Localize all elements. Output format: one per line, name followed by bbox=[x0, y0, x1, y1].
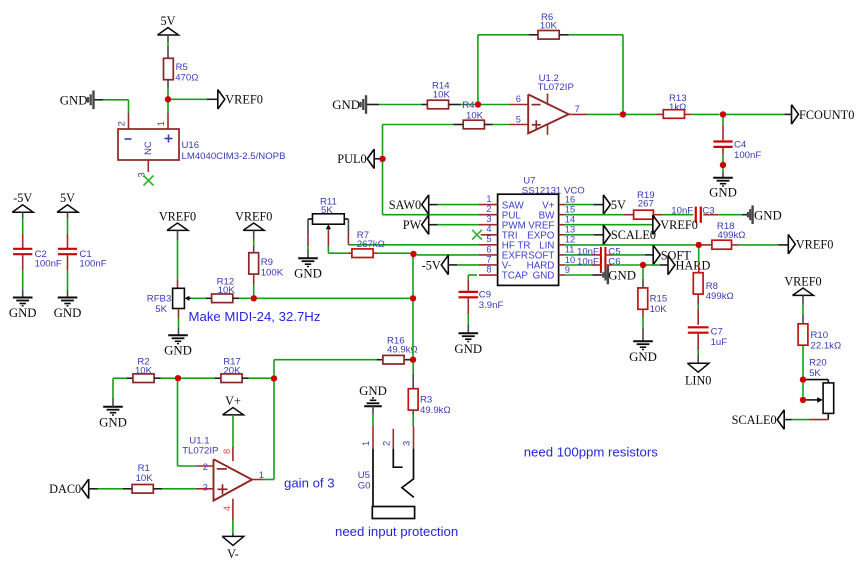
wire junction to VREF0 label bbox=[171, 98, 207, 100]
pin 5 of U1.2 bbox=[510, 124, 529, 126]
U1.1 minus mark bbox=[217, 468, 227, 470]
global label VREF0 (pin 14) bbox=[653, 215, 660, 235]
wire node G to C4 bbox=[722, 118, 724, 125]
pin 3 of U16 bbox=[147, 160, 149, 172]
wire feedback up bbox=[477, 35, 479, 102]
svg-text:GND: GND bbox=[60, 93, 88, 107]
svg-text:1: 1 bbox=[486, 194, 491, 204]
pin 16 of U7 bbox=[559, 204, 565, 206]
svg-text:GND: GND bbox=[709, 186, 737, 200]
wire R6 to output bbox=[560, 34, 569, 36]
wire pin 14 to VREF0 bbox=[565, 224, 653, 226]
wire V+ to U1.1 bbox=[232, 415, 234, 447]
wire node E up to R4 bbox=[382, 125, 384, 156]
wire node K to node L bbox=[802, 383, 804, 397]
resistor R10 bbox=[798, 324, 808, 345]
wire R18 to VREF0 bbox=[732, 244, 739, 246]
svg-text:10K: 10K bbox=[540, 20, 558, 31]
svg-text:GND: GND bbox=[754, 208, 782, 222]
junction R9/R12 bbox=[251, 295, 257, 301]
wire R12 to node bbox=[233, 297, 239, 299]
svg-text:Make MIDI-24, 32.7Hz: Make MIDI-24, 32.7Hz bbox=[189, 309, 321, 324]
GND power flag (C3) bbox=[747, 212, 749, 217]
global label -5V bbox=[441, 255, 448, 275]
junction above GND bbox=[720, 162, 726, 168]
pin 11 of U7 bbox=[559, 254, 565, 256]
ground below C2 bbox=[13, 297, 33, 299]
wire C3 to GND flag bbox=[703, 214, 718, 216]
svg-text:1uF: 1uF bbox=[711, 337, 728, 348]
svg-text:LIN: LIN bbox=[539, 241, 554, 252]
svg-text:GND: GND bbox=[533, 271, 555, 282]
svg-text:10K: 10K bbox=[433, 90, 451, 101]
svg-text:2: 2 bbox=[486, 204, 491, 214]
capacitor C1 bbox=[58, 248, 77, 250]
svg-text:100nF: 100nF bbox=[35, 259, 62, 270]
wire R5 to node bbox=[167, 80, 169, 88]
svg-text:GND: GND bbox=[359, 384, 387, 398]
svg-text:V+: V+ bbox=[225, 394, 241, 408]
GND power flag bbox=[92, 91, 94, 110]
pin 6 of U1.2 bbox=[510, 104, 529, 106]
wire DAC0 to R1 bbox=[89, 488, 98, 490]
svg-text:BW: BW bbox=[539, 210, 556, 221]
U1.2 power stubs bbox=[547, 94, 549, 106]
pin 13 of U7 bbox=[559, 234, 565, 236]
wire node J to R15 bbox=[642, 268, 644, 279]
wire junction to U16 pin 1 bbox=[167, 103, 169, 114]
ground below R15 bbox=[633, 340, 653, 342]
svg-text:GND: GND bbox=[629, 350, 657, 364]
wire C9 to GND bbox=[467, 297, 469, 314]
wire node C to R3 bbox=[412, 363, 414, 374]
svg-text:9: 9 bbox=[565, 265, 570, 275]
wire R4 to pin 5 bbox=[484, 124, 492, 126]
ground left of R2 bbox=[103, 406, 123, 408]
jack U5 body bbox=[373, 449, 414, 507]
node L junction (wiper) bbox=[800, 397, 806, 403]
pin 9 of U7 bbox=[559, 274, 565, 276]
pin 4 of U1.1 bbox=[232, 499, 234, 521]
svg-text:267: 267 bbox=[638, 199, 654, 210]
pin 8 of U7 bbox=[479, 274, 498, 276]
svg-text:7: 7 bbox=[486, 254, 491, 264]
svg-text:10K: 10K bbox=[650, 304, 668, 315]
pin 1 of U16 bbox=[167, 113, 169, 129]
svg-text:100nF: 100nF bbox=[79, 259, 106, 270]
global label SCALE0 (bottom) bbox=[777, 410, 784, 430]
svg-text:5K: 5K bbox=[155, 304, 167, 315]
potentiometer R20 bbox=[823, 383, 834, 414]
svg-text:U16: U16 bbox=[182, 140, 200, 151]
svg-text:GND: GND bbox=[608, 269, 636, 283]
wire C1 to GND bbox=[67, 254, 69, 270]
op-amp U1.1 bbox=[214, 459, 253, 500]
capacitor C6 bbox=[600, 257, 602, 273]
wire GND to R14 bbox=[367, 104, 379, 106]
wire R20 bottom to SCALE0 bbox=[827, 413, 829, 419]
resistor R2 bbox=[133, 374, 154, 383]
pin 10 of U7 bbox=[559, 264, 565, 266]
pin 5 of U7 bbox=[479, 244, 498, 246]
wire C4 to GND node bbox=[722, 147, 724, 155]
svg-text:499kΩ: 499kΩ bbox=[706, 291, 734, 302]
op-amp U1.2 bbox=[528, 94, 568, 133]
svg-text:R15: R15 bbox=[650, 293, 668, 304]
wire C6 to node J bbox=[605, 264, 612, 266]
svg-text:HARD: HARD bbox=[527, 261, 555, 272]
wire R10 to node K bbox=[802, 346, 804, 354]
wire R11 right terminal bbox=[344, 218, 348, 220]
voltage reference U16 body bbox=[118, 129, 179, 160]
svg-text:10K: 10K bbox=[135, 365, 153, 376]
svg-text:1: 1 bbox=[361, 441, 371, 446]
resistor R14 bbox=[427, 100, 448, 109]
svg-text:1kΩ: 1kΩ bbox=[669, 102, 686, 113]
wire VREF0 to R9 bbox=[253, 230, 255, 239]
node A junction bbox=[175, 375, 181, 381]
wire VREF0 to R10 bbox=[802, 295, 804, 304]
wire junction to VCO node bbox=[257, 297, 410, 299]
svg-text:GND: GND bbox=[332, 98, 360, 112]
svg-text:G0: G0 bbox=[358, 481, 371, 492]
wire pin 11 to C5 bbox=[565, 254, 593, 256]
svg-text:15: 15 bbox=[565, 204, 575, 214]
svg-text:VREF0: VREF0 bbox=[225, 93, 263, 107]
global label VREF0 (right) bbox=[788, 234, 795, 254]
svg-text:6: 6 bbox=[486, 244, 491, 254]
svg-text:2: 2 bbox=[203, 462, 208, 472]
wire R4 left bbox=[383, 124, 454, 126]
pin 2 of U7 bbox=[479, 214, 498, 216]
node E junction bbox=[379, 156, 385, 162]
wire pin 9 to GND flag bbox=[565, 274, 593, 276]
wire node H to pin 6 bbox=[417, 254, 480, 256]
svg-text:EXPO: EXPO bbox=[527, 230, 555, 241]
svg-text:7: 7 bbox=[575, 104, 580, 114]
wire C2 to GND bbox=[22, 254, 24, 270]
wire pin 10 to C6 bbox=[565, 264, 593, 266]
svg-text:3: 3 bbox=[486, 214, 491, 224]
svg-text:PUL0: PUL0 bbox=[337, 152, 366, 166]
ground below C4 bbox=[713, 177, 733, 179]
resistor R9 bbox=[249, 253, 259, 274]
potentiometer R11 bbox=[313, 214, 345, 224]
svg-text:-5V: -5V bbox=[422, 258, 441, 272]
U16 minus mark bbox=[125, 138, 132, 140]
wire R2 to node A bbox=[154, 377, 160, 379]
wire R9 to junction bbox=[253, 274, 255, 284]
pin 2 of U16 bbox=[128, 113, 130, 129]
svg-text:SCALE0: SCALE0 bbox=[732, 413, 777, 427]
wire -5V to C2 bbox=[22, 212, 24, 218]
capacitor C5 bbox=[600, 247, 602, 263]
global label PUL0 bbox=[367, 149, 374, 169]
svg-text:SOFT: SOFT bbox=[528, 251, 554, 262]
svg-text:5: 5 bbox=[516, 114, 521, 124]
svg-text:R9: R9 bbox=[261, 257, 273, 268]
svg-text:GND: GND bbox=[164, 344, 192, 358]
wire SAW0 to pin 1 bbox=[429, 204, 438, 206]
wire GND to jack sleeve bbox=[372, 406, 374, 414]
power flag LIN0 bbox=[687, 363, 709, 372]
wire RFB3 to GND bbox=[178, 309, 180, 319]
svg-text:VREF0: VREF0 bbox=[796, 238, 834, 252]
resistor R4 bbox=[463, 120, 484, 129]
resistor R19 bbox=[634, 210, 654, 219]
wire node I to R18 bbox=[702, 244, 713, 246]
svg-text:13: 13 bbox=[565, 225, 575, 235]
svg-text:R4: R4 bbox=[462, 100, 475, 111]
svg-text:16: 16 bbox=[565, 194, 575, 204]
svg-text:LM4040CIM3-2.5/NOPB: LM4040CIM3-2.5/NOPB bbox=[182, 151, 286, 162]
svg-text:C4: C4 bbox=[734, 140, 747, 151]
svg-text:gain of 3: gain of 3 bbox=[284, 475, 335, 490]
svg-text:267kΩ: 267kΩ bbox=[357, 239, 385, 250]
wire VCO node down bbox=[410, 295, 416, 301]
capacitor C9 bbox=[459, 291, 479, 293]
pin 1 output wire bbox=[252, 479, 263, 481]
U1.2 minus mark bbox=[532, 104, 541, 106]
node K junction bbox=[800, 376, 806, 382]
svg-text:C6: C6 bbox=[608, 257, 620, 268]
svg-text:VREF0: VREF0 bbox=[159, 209, 196, 223]
svg-text:14: 14 bbox=[565, 215, 575, 225]
node I junction bbox=[696, 242, 702, 248]
svg-text:5V: 5V bbox=[161, 14, 176, 28]
ground below C9 bbox=[459, 332, 479, 334]
pin 2 wire bbox=[178, 465, 196, 467]
ground below RFB3 bbox=[168, 334, 188, 336]
svg-text:R5: R5 bbox=[176, 62, 188, 73]
pin 14 of U7 bbox=[559, 224, 565, 226]
svg-text:2: 2 bbox=[117, 121, 127, 126]
wire node D to pin 6 bbox=[481, 104, 510, 106]
svg-text:12: 12 bbox=[565, 235, 575, 245]
svg-text:LIN0: LIN0 bbox=[685, 374, 711, 388]
svg-text:4: 4 bbox=[486, 224, 491, 234]
node D junction bbox=[475, 101, 481, 107]
resistor R16 bbox=[383, 355, 404, 364]
wire R11 wiper to R7 bbox=[327, 229, 329, 246]
pin 3 of U7 bbox=[479, 224, 498, 226]
node VREF0 junction bbox=[165, 96, 171, 102]
wire -5V to pin 7 bbox=[448, 264, 457, 266]
wire 5V to R5 bbox=[167, 35, 169, 42]
svg-text:GND: GND bbox=[294, 267, 322, 281]
U1.1 plus mark bbox=[218, 488, 228, 490]
pin 6 of U7 bbox=[479, 254, 498, 256]
global label SCALE0 bbox=[603, 225, 610, 245]
capacitor C3 bbox=[695, 207, 697, 223]
capacitor C4 bbox=[713, 140, 732, 142]
wire node I to R8 bbox=[698, 248, 700, 264]
U1.2 plus mark bbox=[532, 124, 541, 126]
VCO U7 body bbox=[498, 194, 559, 285]
wire pin 8 to C9 bbox=[468, 274, 477, 276]
svg-text:GND: GND bbox=[454, 342, 482, 356]
wire pin 12 to node I bbox=[565, 244, 696, 246]
svg-text:TL072IP: TL072IP bbox=[538, 82, 574, 93]
svg-text:R8: R8 bbox=[706, 281, 718, 292]
wire pin 13 to SCALE0 bbox=[565, 234, 595, 236]
wire R16 to node C bbox=[405, 359, 410, 361]
global label DAC0 bbox=[82, 479, 89, 499]
svg-text:VREF0: VREF0 bbox=[235, 209, 272, 223]
svg-text:470Ω: 470Ω bbox=[175, 73, 198, 84]
svg-text:VREF0: VREF0 bbox=[660, 218, 698, 232]
svg-text:R20: R20 bbox=[809, 358, 827, 369]
wire R1 to pin 3 bbox=[153, 488, 162, 490]
wire R14 to node D bbox=[449, 104, 461, 106]
svg-text:-5V: -5V bbox=[13, 191, 32, 205]
U16 plus mark bbox=[165, 138, 173, 140]
svg-text:need input protection: need input protection bbox=[335, 524, 458, 539]
resistor R13 bbox=[663, 110, 684, 119]
node J junction bbox=[640, 262, 646, 268]
svg-text:5K: 5K bbox=[321, 205, 333, 216]
svg-text:1: 1 bbox=[156, 121, 166, 126]
svg-text:5V: 5V bbox=[60, 191, 75, 205]
wire node E down to PUL pin bbox=[382, 162, 384, 215]
svg-text:4: 4 bbox=[222, 506, 232, 511]
wire R7 to node H bbox=[373, 252, 377, 254]
pin 3 of U5 bbox=[413, 427, 415, 449]
pin 1 of U5 bbox=[372, 427, 374, 449]
svg-text:GND: GND bbox=[99, 416, 127, 430]
node F junction bbox=[620, 111, 626, 117]
wire node A down to pin 2 bbox=[177, 382, 179, 467]
wire GND flag to U16 pin 2 bbox=[95, 99, 104, 101]
pin 7 output bbox=[569, 113, 587, 115]
svg-text:3: 3 bbox=[402, 441, 412, 446]
global label 5V bbox=[603, 195, 610, 215]
power V- bbox=[222, 536, 244, 545]
pin 8 of U1.1 bbox=[232, 447, 234, 461]
wire C5 to SOFT bbox=[605, 254, 612, 256]
svg-text:10K: 10K bbox=[218, 285, 236, 296]
svg-text:10nF: 10nF bbox=[577, 257, 599, 268]
svg-text:8: 8 bbox=[222, 449, 232, 454]
svg-text:10nF: 10nF bbox=[671, 205, 693, 216]
node B junction bbox=[271, 375, 277, 381]
svg-text:VREF: VREF bbox=[528, 220, 554, 231]
svg-text:1: 1 bbox=[259, 470, 264, 480]
svg-text:2: 2 bbox=[381, 441, 391, 446]
svg-text:5V: 5V bbox=[611, 198, 626, 212]
wire top to R6 bbox=[478, 34, 529, 36]
svg-text:10K: 10K bbox=[136, 473, 154, 484]
pin 12 of U7 bbox=[559, 244, 565, 246]
svg-text:20K: 20K bbox=[223, 365, 241, 376]
wire PW to pin 3 bbox=[429, 224, 438, 226]
resistor R1 bbox=[132, 485, 153, 494]
resistor R5 bbox=[164, 58, 174, 79]
svg-text:499kΩ: 499kΩ bbox=[718, 230, 746, 241]
wire wiper to R12 bbox=[191, 297, 206, 299]
wire R15 to GND bbox=[642, 309, 644, 317]
svg-text:22.1kΩ: 22.1kΩ bbox=[811, 341, 842, 352]
svg-text:C7: C7 bbox=[711, 326, 723, 337]
R20 wiper arrow bbox=[806, 399, 818, 401]
svg-text:PW: PW bbox=[403, 218, 422, 232]
wire GND to R2 bbox=[112, 398, 114, 407]
resistor R7 bbox=[352, 249, 373, 258]
wire VREF0 to RFB3 bbox=[177, 230, 179, 240]
svg-text:C9: C9 bbox=[479, 290, 491, 301]
wire node B to R16 bbox=[274, 359, 377, 361]
svg-text:6: 6 bbox=[516, 94, 521, 104]
wire R11 left to GND bbox=[308, 218, 313, 220]
ground below R11 bbox=[298, 257, 318, 259]
pin 15 of U7 bbox=[559, 214, 565, 216]
global label HARD bbox=[668, 255, 675, 275]
svg-text:U5: U5 bbox=[358, 470, 370, 481]
svg-text:TL072IP: TL072IP bbox=[182, 446, 218, 457]
svg-text:HARD: HARD bbox=[676, 258, 711, 272]
svg-text:8: 8 bbox=[486, 264, 491, 274]
resistor R3 bbox=[408, 389, 418, 410]
svg-text:R10: R10 bbox=[811, 330, 829, 341]
svg-text:DAC0: DAC0 bbox=[49, 482, 81, 496]
svg-text:3.9nF: 3.9nF bbox=[479, 300, 504, 311]
wire node K to R20 top bbox=[806, 379, 828, 381]
svg-text:GND: GND bbox=[9, 306, 37, 320]
wire R11 to pin 5 bbox=[348, 244, 479, 246]
GND power flag (pin 9) bbox=[602, 272, 604, 277]
svg-text:5: 5 bbox=[486, 234, 491, 244]
pin 7 of U7 bbox=[479, 264, 498, 266]
wire R8 to C7 bbox=[697, 294, 699, 304]
resistor R12 bbox=[212, 294, 233, 303]
pin 4 of U7 bbox=[481, 234, 498, 236]
ground below C1 bbox=[58, 297, 78, 299]
pin 2 of U5 bbox=[392, 429, 394, 449]
global label FCOUNT0 bbox=[792, 105, 799, 125]
svg-text:SS12131 VCO: SS12131 VCO bbox=[522, 185, 585, 196]
wire 5V to C1 bbox=[67, 212, 69, 218]
wire node F to R13 bbox=[626, 113, 657, 115]
capacitor C7 bbox=[688, 326, 709, 328]
svg-text:V-: V- bbox=[227, 547, 239, 561]
node C junction bbox=[410, 357, 416, 363]
svg-text:5K: 5K bbox=[809, 368, 821, 379]
svg-text:FCOUNT0: FCOUNT0 bbox=[799, 108, 854, 122]
svg-text:SCALE0: SCALE0 bbox=[611, 228, 656, 242]
R11 wiper arrow bbox=[327, 226, 329, 229]
no-connect X on pin 3 bbox=[144, 176, 154, 186]
resistor R18 bbox=[712, 240, 732, 249]
svg-text:100nF: 100nF bbox=[734, 150, 761, 161]
svg-text:VREF0: VREF0 bbox=[784, 274, 821, 288]
node H junction (EXFR) bbox=[410, 251, 416, 257]
wire node A to R17 bbox=[181, 377, 215, 379]
wire junction to GND bbox=[722, 168, 724, 172]
svg-text:100K: 100K bbox=[261, 267, 284, 278]
svg-text:GND: GND bbox=[54, 306, 82, 320]
pin 1 of U7 bbox=[479, 204, 498, 206]
jack U5 base rect bbox=[372, 507, 414, 519]
capacitor C2 bbox=[13, 248, 32, 250]
wire pin 16 to 5V bbox=[565, 204, 594, 206]
svg-text:49.9kΩ: 49.9kΩ bbox=[420, 405, 451, 416]
node G junction bbox=[720, 111, 726, 117]
potentiometer RFB3 bbox=[173, 288, 185, 308]
global label PW bbox=[422, 215, 429, 235]
pin 3 of U1.1 bbox=[196, 488, 214, 490]
svg-text:V+: V+ bbox=[542, 200, 555, 211]
resistor R15 bbox=[638, 288, 648, 309]
